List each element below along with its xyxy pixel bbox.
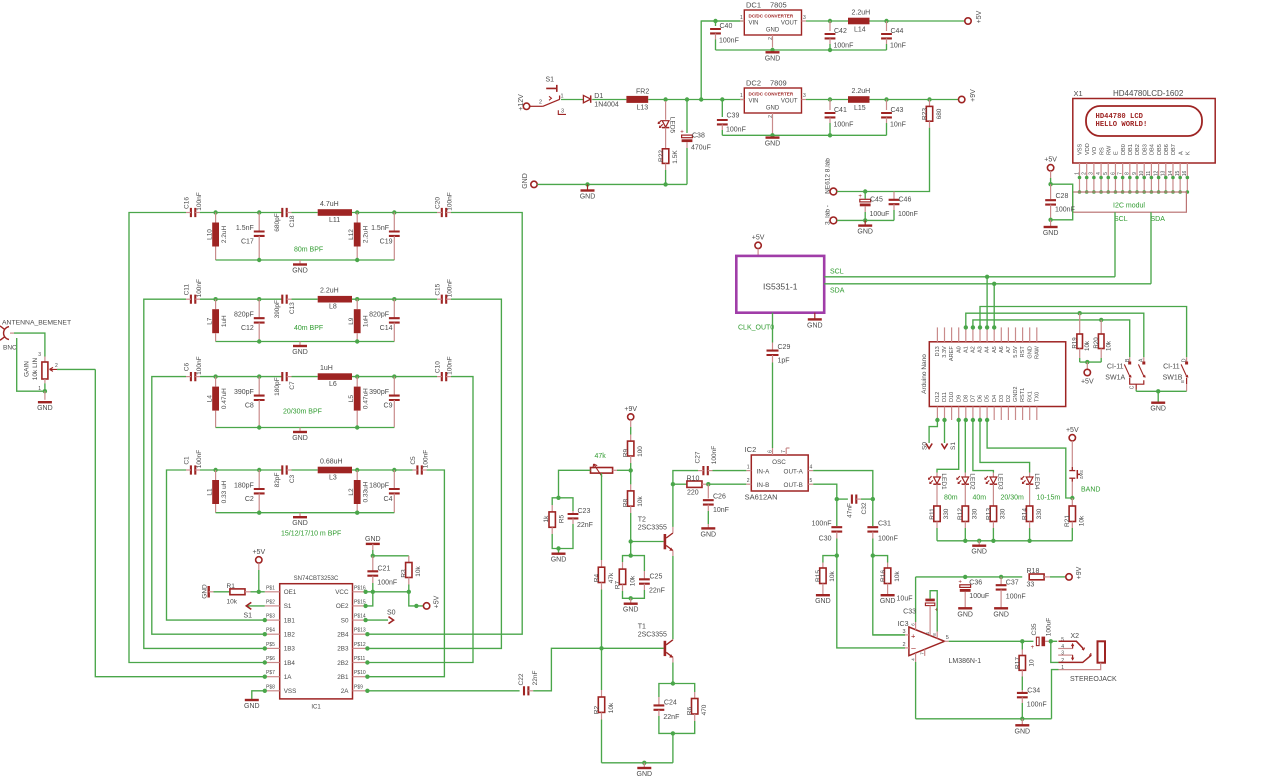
Arduino pin D9 — [958, 407, 960, 421]
svg-text:10k: 10k — [1084, 340, 1091, 351]
jack barrel — [1098, 641, 1106, 662]
mixer IC2 SA612AN — [751, 455, 808, 491]
svg-text:A2: A2 — [971, 346, 977, 353]
junction — [392, 374, 396, 378]
junction — [1027, 539, 1031, 543]
IC3 pin 3 wire — [873, 634, 905, 636]
svg-text:C7: C7 — [289, 381, 296, 390]
junction — [263, 675, 267, 679]
capacitor C38 470uF — [686, 100, 688, 134]
junction — [355, 374, 359, 378]
svg-text:DB5: DB5 — [1157, 144, 1163, 155]
svg-text:100nF: 100nF — [1027, 702, 1047, 709]
IC2 pin 7 — [785, 448, 787, 455]
Arduino pin D6 — [979, 407, 981, 421]
svg-text:D6: D6 — [978, 395, 984, 402]
svg-text:P$7: P$7 — [266, 670, 275, 676]
capacitor C32 47nF — [836, 495, 838, 500]
svg-text:C39: C39 — [727, 113, 740, 120]
svg-text:1pF: 1pF — [778, 358, 790, 365]
svg-text:+9V: +9V — [1076, 566, 1083, 579]
svg-text:DB7: DB7 — [1171, 144, 1177, 155]
ground symbol — [994, 607, 1008, 609]
junction — [985, 275, 989, 279]
svg-text:C10: C10 — [435, 361, 442, 373]
svg-text:2SC3355: 2SC3355 — [638, 525, 667, 532]
wire SDA to I2C module — [1150, 212, 1152, 284]
svg-text:100nF: 100nF — [447, 192, 454, 210]
wire 40m input net — [144, 299, 265, 648]
svg-text:R4: R4 — [593, 573, 600, 582]
junction — [1020, 717, 1024, 721]
junction — [365, 646, 369, 650]
svg-text:47nF: 47nF — [846, 503, 853, 518]
svg-text:RS: RS — [1099, 147, 1105, 155]
svg-text:D3: D3 — [999, 395, 1005, 402]
svg-text:3.3V: 3.3V — [942, 346, 948, 358]
svg-text:10k: 10k — [1079, 515, 1086, 526]
wire A1 to R19/SW1A-A — [966, 313, 1144, 357]
ground symbol — [643, 763, 645, 768]
svg-text:GND: GND — [815, 598, 831, 605]
junction — [991, 539, 995, 543]
svg-text:GND: GND — [957, 611, 973, 618]
svg-text:OE1: OE1 — [284, 589, 297, 596]
svg-text:82pF: 82pF — [274, 473, 281, 488]
svg-text:10k: 10k — [608, 702, 615, 713]
Arduino pin GND2 — [1015, 407, 1017, 421]
svg-text:CLK_OUT0: CLK_OUT0 — [738, 325, 774, 332]
svg-text:FR2: FR2 — [636, 89, 649, 96]
wire 80m output net to 2B4 — [367, 213, 522, 635]
LED ground rail wire — [937, 540, 1072, 542]
inductor L3 0.68uH — [292, 469, 318, 471]
resistor R10 220 — [673, 483, 687, 485]
svg-text:+9V: +9V — [624, 406, 637, 413]
wire antenna gain net to 1A — [95, 369, 264, 676]
svg-text:R8: R8 — [623, 498, 630, 507]
wire T1 emitter down — [672, 663, 674, 684]
DC2 ground rail — [722, 134, 886, 136]
IC1 pin P$4 1B2 — [265, 633, 280, 635]
wire — [200, 469, 282, 471]
svg-text:C29: C29 — [778, 344, 791, 351]
svg-text:13: 13 — [1161, 171, 1167, 177]
svg-text:100nF: 100nF — [878, 536, 898, 543]
svg-text:C26: C26 — [713, 494, 726, 501]
svg-text:100nF: 100nF — [196, 279, 203, 297]
svg-text:C15: C15 — [435, 283, 442, 295]
svg-text:2B1: 2B1 — [337, 674, 349, 681]
wire 80m input net — [129, 213, 265, 663]
svg-text:A4: A4 — [985, 346, 991, 353]
svg-text:AREF: AREF — [949, 346, 955, 362]
resistor R13 330 — [992, 484, 994, 506]
IC1 pin P$1 OE1 — [265, 591, 280, 593]
svg-text:IC1: IC1 — [311, 705, 321, 711]
svg-text:DB1: DB1 — [1128, 144, 1134, 155]
wire — [352, 212, 437, 214]
capacitor C11 100nF — [191, 295, 195, 304]
IC1 pin P$14 S0 — [353, 619, 368, 621]
+5V supply pin for band switch — [1069, 435, 1075, 441]
svg-text:P$13: P$13 — [354, 628, 366, 634]
svg-text:GND: GND — [365, 536, 381, 543]
wire — [200, 376, 282, 378]
resistor R8 10k — [630, 470, 632, 484]
svg-text:820pF: 820pF — [234, 312, 254, 319]
wire T2 collector to R10 node — [672, 484, 674, 527]
wire A2 to R20/SW1A-B — [973, 320, 1130, 357]
svg-text:1k: 1k — [543, 515, 550, 523]
svg-text:+5V: +5V — [1081, 379, 1094, 386]
svg-text:X2: X2 — [1071, 633, 1080, 640]
resistor R18 33 — [1029, 574, 1044, 580]
capacitor C6 100nF — [191, 372, 195, 381]
svg-text:100nF: 100nF — [447, 279, 454, 297]
capacitor C9 390pF — [393, 377, 395, 396]
push button SW2 BAND — [1071, 441, 1073, 467]
svg-text:C38: C38 — [692, 133, 705, 140]
svg-text:7: 7 — [1117, 172, 1123, 175]
parallel R7 10k / C25 22nF — [623, 556, 631, 562]
net stub S1 arrow — [248, 605, 265, 607]
junction — [978, 418, 982, 422]
junction — [355, 425, 359, 429]
DC/DC converter DC1 7805 — [744, 10, 801, 35]
svg-text:80m: 80m — [944, 494, 958, 501]
svg-text:C35: C35 — [1031, 623, 1038, 635]
IC3 pin 4 GND — [915, 653, 917, 662]
svg-text:L3: L3 — [329, 475, 337, 482]
svg-text:1B2: 1B2 — [284, 632, 296, 639]
svg-text:820pF: 820pF — [369, 312, 389, 319]
filter ground rail wire — [216, 341, 395, 343]
junction — [828, 97, 832, 101]
svg-text:10k: 10k — [415, 566, 422, 577]
svg-text:7: 7 — [781, 450, 787, 453]
svg-text:+12V: +12V — [518, 94, 525, 111]
svg-text:47k: 47k — [595, 453, 607, 460]
svg-text:P$3: P$3 — [266, 614, 275, 620]
svg-text:1: 1 — [740, 93, 743, 99]
junction — [355, 258, 359, 262]
junction — [363, 618, 367, 622]
junction — [863, 189, 867, 193]
svg-text:SDA: SDA — [1151, 216, 1166, 223]
svg-text:GND: GND — [292, 520, 308, 527]
junction — [957, 418, 961, 422]
svg-text:L10: L10 — [207, 229, 214, 240]
wire 20/30m input net — [152, 377, 265, 635]
svg-text:3. láb -: 3. láb - — [825, 205, 832, 225]
svg-text:SCL: SCL — [830, 269, 844, 276]
wire VCC net — [366, 591, 409, 593]
svg-text:3: 3 — [902, 629, 905, 635]
svg-text:DB6: DB6 — [1164, 144, 1170, 155]
op-amp IC3 LM386N-1 — [909, 627, 945, 656]
svg-text:VSS: VSS — [1078, 144, 1084, 155]
svg-text:100nF: 100nF — [447, 356, 454, 374]
svg-text:100nF: 100nF — [898, 211, 918, 218]
audio ground rail wire — [916, 718, 1052, 720]
junction — [355, 511, 359, 515]
Arduino pin A1 — [965, 327, 967, 341]
junction — [871, 553, 875, 557]
filter ground rail wire — [216, 512, 395, 514]
svg-text:330: 330 — [1000, 508, 1007, 519]
svg-text:S1: S1 — [244, 613, 253, 620]
junction — [871, 497, 875, 501]
parallel R5 1k / C23 22nF — [552, 498, 558, 505]
svg-text:D12: D12 — [935, 392, 941, 402]
svg-text:1.5K: 1.5K — [672, 150, 679, 164]
svg-text:C22: C22 — [518, 673, 525, 685]
svg-text:100nF: 100nF — [711, 446, 718, 464]
svg-text:L11: L11 — [329, 217, 340, 224]
junction — [365, 660, 369, 664]
power input +12V supply pin — [523, 103, 529, 109]
svg-text:100nF: 100nF — [377, 580, 397, 587]
junction — [407, 590, 411, 594]
switch S1 — [530, 105, 543, 107]
junction — [828, 133, 832, 137]
jack tip contact pin 5 — [1059, 641, 1084, 648]
svg-text:GAIN: GAIN — [23, 361, 30, 377]
IC2 pin 4 — [808, 470, 813, 472]
svg-text:10-15m: 10-15m — [1037, 494, 1061, 501]
svg-text:C37: C37 — [1006, 580, 1019, 587]
wire T2 emitter to T1 collector — [672, 556, 674, 639]
svg-text:2: 2 — [1081, 172, 1087, 175]
capacitor C2 180pF — [258, 470, 260, 489]
svg-text:IC2: IC2 — [745, 445, 757, 454]
svg-text:GND: GND — [766, 28, 780, 34]
wire pot wiper to bus — [57, 368, 95, 370]
ground symbol — [816, 594, 830, 596]
junction — [720, 97, 724, 101]
svg-text:VIN: VIN — [749, 99, 759, 105]
svg-text:T2: T2 — [638, 517, 646, 524]
svg-text:SA612AN: SA612AN — [745, 493, 778, 502]
svg-text:3: 3 — [803, 15, 806, 21]
svg-text:D7: D7 — [971, 395, 977, 402]
svg-text:DB0: DB0 — [1121, 144, 1127, 155]
svg-text:DC2: DC2 — [746, 79, 761, 88]
svg-text:100nF: 100nF — [422, 450, 429, 468]
Arduino pin 3.3V — [944, 327, 946, 341]
junction — [1099, 318, 1103, 322]
svg-text:C18: C18 — [289, 215, 296, 227]
LED LED5 — [665, 101, 667, 120]
svg-text:40m: 40m — [973, 494, 987, 501]
IC3 pin 7 — [924, 649, 926, 656]
svg-text:C28: C28 — [1056, 193, 1069, 200]
filter ground rail wire — [216, 427, 395, 429]
svg-text:C3: C3 — [289, 474, 296, 483]
svg-text:C11: C11 — [184, 284, 191, 296]
svg-text:L12: L12 — [348, 229, 355, 240]
IC1 pin P$7 1A — [265, 676, 280, 678]
resistor R16 10k — [873, 556, 888, 563]
wire 40m output net to 2B3 — [367, 299, 501, 648]
Arduino pin RST1 — [1022, 407, 1024, 421]
svg-text:LM386N-1: LM386N-1 — [949, 658, 982, 665]
svg-text:0.68uH: 0.68uH — [320, 459, 343, 466]
inductor L10 2.2uH — [215, 213, 217, 223]
wire switch commons to GND — [1135, 390, 1137, 392]
junction — [365, 632, 369, 636]
svg-text:C41: C41 — [834, 107, 847, 114]
svg-text:C6: C6 — [184, 363, 191, 372]
ground symbol — [707, 524, 709, 528]
resistor R23 680 — [929, 100, 931, 107]
inductor L12 2.2uH — [356, 213, 358, 223]
capacitor C30 100nF — [836, 499, 838, 526]
IC3 pin 2 wire — [905, 647, 909, 649]
wire IC3 out to C35 — [949, 640, 1034, 642]
svg-text:1: 1 — [1074, 172, 1080, 175]
junction — [213, 210, 217, 214]
svg-text:6: 6 — [768, 450, 774, 453]
Arduino Nano module — [929, 342, 1065, 407]
svg-text:C12: C12 — [241, 325, 254, 332]
svg-text:GND: GND — [522, 173, 529, 189]
svg-text:2.2uH: 2.2uH — [362, 226, 369, 244]
svg-text:40m BPF: 40m BPF — [294, 325, 323, 332]
wire DC2 VOUT rail — [806, 99, 848, 101]
capacitor C17 1.5nF — [258, 213, 260, 232]
svg-text:2: 2 — [539, 100, 542, 106]
resistor R20 10k — [1100, 320, 1102, 334]
svg-text:3: 3 — [561, 109, 564, 115]
junction — [713, 19, 717, 23]
svg-text:NE612 8.láb: NE612 8.láb — [825, 158, 832, 194]
wire 15-10m output net to 2B1 — [367, 470, 444, 677]
svg-text:D5: D5 — [985, 395, 991, 402]
IC1 pin P$11 2B2 — [353, 662, 368, 664]
junction — [963, 539, 967, 543]
junction — [964, 418, 968, 422]
resistor R17 10 — [1021, 641, 1023, 649]
junction — [257, 339, 261, 343]
inductor L11 4.7uH — [292, 212, 318, 214]
capacitor C40 100nF — [701, 20, 740, 22]
svg-text:+5V: +5V — [1044, 157, 1057, 164]
svg-text:1A: 1A — [284, 674, 293, 681]
junction — [835, 497, 839, 501]
svg-text:1.5nF: 1.5nF — [371, 225, 389, 232]
wire lower rail — [837, 219, 894, 221]
jack switch pin 3 — [1058, 654, 1073, 656]
svg-text:GND: GND — [1043, 230, 1059, 237]
svg-text:R6: R6 — [687, 706, 694, 715]
svg-text:+9V: +9V — [970, 89, 977, 102]
diode D1 1N4004 — [583, 95, 590, 102]
svg-text:7805: 7805 — [770, 1, 787, 10]
wire 20/30m output net to 2B2 — [367, 377, 473, 663]
svg-text:C27: C27 — [694, 451, 701, 463]
junction — [1078, 311, 1082, 315]
svg-text:DB4: DB4 — [1150, 144, 1156, 155]
svg-text:RX1: RX1 — [1027, 391, 1033, 402]
svg-text:RW: RW — [1106, 145, 1112, 155]
svg-text:LED5: LED5 — [669, 117, 676, 134]
svg-text:DC/DC CONVERTER: DC/DC CONVERTER — [749, 14, 794, 19]
svg-text:22nF: 22nF — [577, 522, 593, 529]
wire R23 down to NE612 rail — [894, 128, 930, 192]
Arduino pin D3 — [1000, 407, 1002, 421]
svg-text:15/12/17/10 m BPF: 15/12/17/10 m BPF — [281, 531, 341, 538]
svg-text:A: A — [1178, 151, 1184, 155]
svg-text:BAND: BAND — [1081, 487, 1100, 494]
svg-text:10k LIN: 10k LIN — [32, 357, 39, 380]
junction — [671, 681, 675, 685]
capacitor C26 10nF — [707, 484, 709, 498]
svg-text:6: 6 — [1110, 172, 1116, 175]
svg-text:STEREOJACK: STEREOJACK — [1070, 676, 1117, 683]
svg-text:VSS: VSS — [284, 688, 297, 695]
svg-text:2B2: 2B2 — [337, 660, 349, 667]
svg-text:L5: L5 — [348, 395, 355, 403]
svg-text:DB3: DB3 — [1142, 144, 1148, 155]
fuse FR2 L13 — [626, 96, 648, 103]
svg-text:C32: C32 — [861, 502, 868, 514]
ground symbol for IS5351 — [814, 313, 816, 319]
resistor R22 1.5K — [665, 128, 667, 149]
svg-text:220: 220 — [687, 490, 699, 497]
DC1 ground rail — [716, 49, 887, 51]
svg-text:L13: L13 — [637, 105, 649, 112]
svg-text:GND: GND — [623, 607, 639, 614]
svg-text:R1: R1 — [227, 583, 236, 590]
capacitor C5 100nF — [417, 465, 421, 474]
IC2 pin 2 — [746, 483, 751, 485]
junction — [257, 374, 261, 378]
capacitor C7 180pF — [282, 372, 286, 381]
svg-text:100nF: 100nF — [719, 38, 739, 45]
svg-text:390pF: 390pF — [369, 389, 389, 396]
svg-text:2.2uH: 2.2uH — [221, 226, 228, 244]
svg-text:100uF: 100uF — [1045, 618, 1052, 636]
Arduino pin A3 — [979, 327, 981, 341]
svg-text:GND: GND — [292, 268, 308, 275]
svg-text:R14: R14 — [1022, 508, 1029, 520]
Arduino pin D11 — [944, 407, 946, 421]
svg-text:D8: D8 — [963, 395, 969, 402]
capacitor C29 1pF — [772, 343, 774, 351]
Arduino pin A0 — [958, 327, 960, 341]
junction — [392, 297, 396, 301]
wire IC2 OUT-A to C32 node — [813, 471, 873, 495]
capacitor C42 100nF — [829, 21, 831, 31]
capacitor C31 100nF — [872, 499, 874, 526]
ground symbol — [245, 699, 259, 701]
Arduino pin 5.5V — [1015, 327, 1017, 341]
svg-text:C14: C14 — [380, 325, 393, 332]
junction — [629, 553, 633, 557]
junction — [43, 389, 47, 393]
svg-text:A5: A5 — [992, 346, 998, 353]
junction — [999, 575, 1003, 579]
junction — [992, 325, 996, 329]
svg-text:A1: A1 — [963, 346, 969, 353]
wire R19 R20 to +5V — [1080, 361, 1102, 363]
svg-text:4: 4 — [810, 465, 813, 471]
svg-text:470uF: 470uF — [691, 145, 711, 152]
svg-text:1.5nF: 1.5nF — [236, 225, 254, 232]
capacitor C13 390pF — [282, 295, 286, 304]
